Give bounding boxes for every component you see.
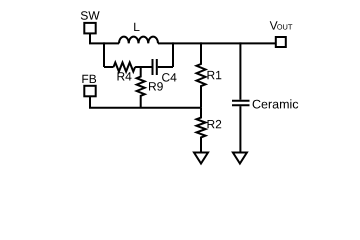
capacitor C4 xyxy=(153,59,157,75)
label R1 xyxy=(208,71,222,79)
ground under Ceramic xyxy=(233,153,247,164)
wire loop right vertical xyxy=(172,42,174,67)
wire main horizontal net SW to VOUT xyxy=(89,42,276,44)
resistor R2 xyxy=(197,108,206,153)
resistor R4 xyxy=(114,63,136,72)
wire R4 left lead xyxy=(104,66,114,68)
inductor L xyxy=(119,37,158,44)
wire loop left vertical xyxy=(103,42,105,67)
label R4 xyxy=(118,72,132,80)
wire ceramic top lead xyxy=(239,42,241,99)
label R2 xyxy=(208,120,222,128)
wire ceramic bottom lead xyxy=(239,106,241,152)
wire FB lead down xyxy=(89,96,91,107)
label C4 xyxy=(162,73,176,82)
label VOUT xyxy=(270,21,293,29)
wire FB horizontal to R1/R2 node xyxy=(89,107,201,109)
ground under R2 xyxy=(194,153,208,164)
resistor R1 xyxy=(197,42,206,107)
pin VOUT xyxy=(276,37,286,47)
resistor R9 xyxy=(137,66,145,108)
wire R4 to C4 with junction at R9 xyxy=(135,66,151,68)
label L xyxy=(134,23,139,31)
capacitor Ceramic xyxy=(232,101,250,106)
label R9 xyxy=(149,82,163,91)
pin SW xyxy=(84,23,95,34)
pin FB xyxy=(84,86,95,97)
label Ceramic xyxy=(253,99,299,108)
label FB xyxy=(82,75,96,83)
label SW xyxy=(81,11,100,20)
wire SW lead down xyxy=(89,33,91,43)
wire C4 to loop right vertical xyxy=(158,66,173,68)
